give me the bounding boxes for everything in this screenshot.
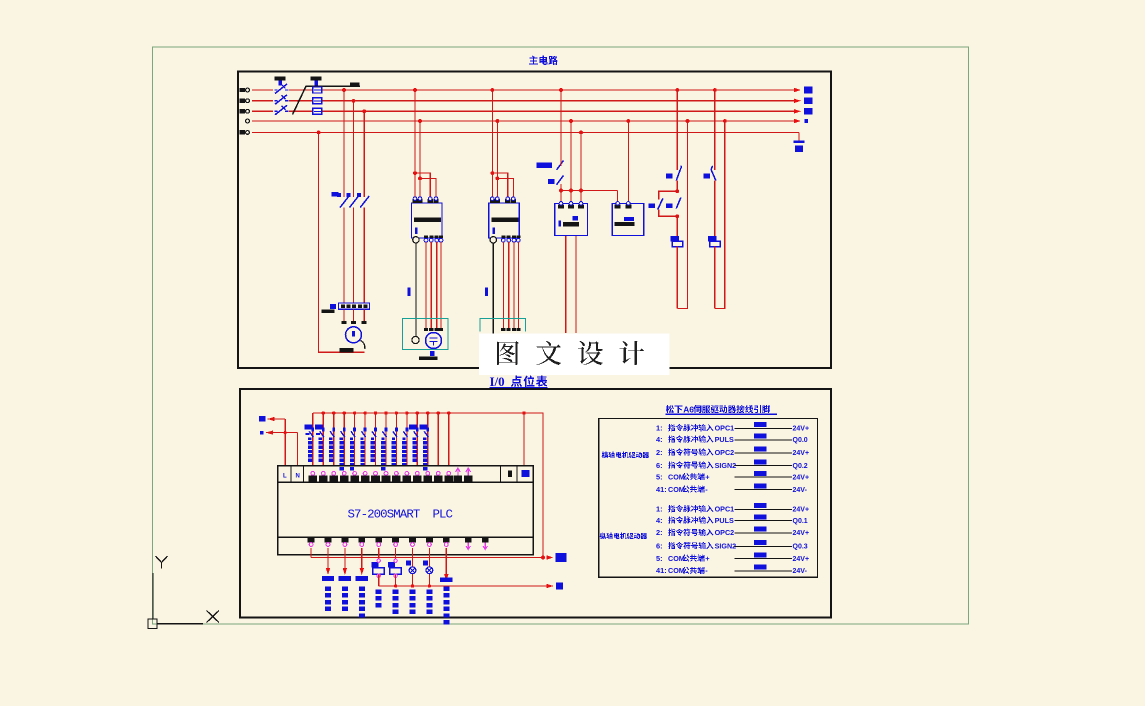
svg-text:L: L (283, 474, 287, 480)
PSU output wires (566, 236, 576, 333)
sensor labels (305, 424, 428, 429)
svg-text:24V+: 24V+ (793, 450, 810, 457)
contactor KM poles column (337, 90, 369, 303)
wires strip to motor1 (342, 309, 367, 324)
svg-text:N: N (296, 474, 300, 480)
svg-text:24V+: 24V+ (793, 556, 810, 563)
PLC bottom terminals (308, 538, 489, 550)
servo pin row A1 (656, 422, 809, 433)
circuit breaker QF poles (273, 84, 289, 115)
drawing frame border (153, 47, 969, 624)
svg-text:24V-: 24V- (793, 487, 808, 494)
PSU box G1 (555, 202, 588, 236)
driver U2 feed wires (490, 90, 513, 199)
driver U2 output wires (485, 242, 518, 338)
label 横轴电机驱动器 (602, 452, 649, 458)
driver U1 feed wires (413, 90, 436, 199)
output column Q0 (322, 548, 334, 611)
svg-text:2:: 2: (656, 448, 663, 457)
motor M1 (340, 327, 365, 353)
servo pin row A2 (656, 433, 808, 444)
title 主电路 (529, 56, 558, 65)
svg-text:6:: 6: (656, 542, 663, 551)
servo pin row B4 (656, 540, 808, 551)
PLC top terminals (309, 468, 473, 481)
svg-text:PULS: PULS (715, 516, 734, 525)
svg-text:+: + (705, 472, 710, 481)
output column relay KA2 (388, 548, 401, 614)
bus line L3 (240, 109, 802, 113)
servo table title (666, 404, 778, 414)
svg-text:24V+: 24V+ (793, 507, 810, 514)
svg-text:4:: 4: (656, 516, 663, 525)
svg-text:OPC1: OPC1 (715, 424, 735, 433)
svg-text:OPC1: OPC1 (715, 505, 735, 514)
svg-text:24V+: 24V+ (793, 530, 810, 537)
watermark text 图文设计 (497, 341, 644, 365)
svg-text:I/0: I/0 (490, 374, 505, 389)
bus line L4 (246, 119, 801, 123)
servo pin row B2 (656, 514, 808, 525)
PLC supply wires (259, 416, 297, 466)
svg-text:Q0.3: Q0.3 (793, 544, 808, 551)
servo pin row A6 (656, 483, 808, 494)
PLC label (348, 508, 453, 522)
servo pin row B6 (656, 565, 808, 576)
output column lamp HL1 (406, 548, 416, 614)
svg-text:PULS: PULS (715, 435, 734, 444)
PE terminal symbol (794, 141, 805, 153)
main circuit box (238, 72, 831, 369)
svg-text:6:: 6: (656, 461, 663, 470)
motor box M3 (teal, partly covered) (480, 319, 526, 332)
label 纵轴电机驱动器 (600, 533, 647, 539)
svg-text:SIGN2: SIGN2 (715, 542, 737, 551)
PLC S7-200 block (278, 466, 534, 555)
control box G2 (612, 202, 643, 236)
svg-text:1:: 1: (656, 505, 663, 514)
servo pin row A5 (656, 471, 809, 482)
svg-text:24V+: 24V+ (793, 426, 810, 433)
driver U2 box (489, 197, 520, 243)
watermark band (479, 334, 670, 376)
UCS axis icon (148, 556, 219, 629)
fuse group FU (313, 87, 322, 114)
control branch K2 (703, 90, 725, 309)
breaker handle T symbol (275, 77, 286, 86)
output column Q1 (339, 548, 351, 611)
output column Q7 (440, 548, 452, 624)
svg-text:5:: 5: (656, 554, 663, 563)
input sensor columns (306, 413, 449, 470)
svg-text:COM: COM (668, 472, 685, 481)
switch SB above PSU (537, 90, 564, 191)
relay common rail (379, 582, 563, 589)
servo table box (599, 419, 818, 578)
terminal strip XT1 (322, 303, 370, 313)
svg-text:S7-200SMART PLC: S7-200SMART PLC (348, 508, 453, 522)
svg-text:41:: 41: (656, 566, 667, 575)
svg-text:5:: 5: (656, 472, 663, 481)
label I/O点位表 (490, 374, 548, 389)
output column relay KA1 (371, 548, 384, 607)
bus line L1 (240, 88, 802, 92)
servo pin row B3 (656, 527, 809, 538)
bus line L2 (240, 99, 802, 103)
svg-text:COM: COM (668, 554, 685, 563)
bus line L5 (240, 130, 800, 141)
driver U1 box (412, 197, 444, 243)
fuse handle T symbol (311, 77, 322, 86)
control branch K1 (648, 90, 687, 309)
output column Q2 (356, 548, 368, 618)
svg-text:24V+: 24V+ (793, 474, 810, 481)
svg-text:COM: COM (668, 485, 685, 494)
svg-text:OPC2: OPC2 (715, 448, 735, 457)
wire L5 to motor1 bottom (319, 132, 365, 352)
servo pin row B5 (656, 552, 809, 563)
PSU feed wires (559, 121, 628, 203)
driver U1 output wires (408, 242, 442, 338)
svg-text:1:: 1: (656, 424, 663, 433)
svg-text:OPC2: OPC2 (715, 528, 735, 537)
svg-text:4:: 4: (656, 435, 663, 444)
bus junction dots (317, 88, 727, 134)
servo pin row A3 (656, 446, 809, 457)
I/O box (240, 389, 831, 618)
svg-text:Q0.0: Q0.0 (793, 437, 808, 444)
breaker linkage (293, 83, 361, 115)
svg-text:+: + (705, 554, 710, 563)
svg-text:24V-: 24V- (793, 568, 808, 575)
output common rail (311, 548, 566, 562)
svg-text:SIGN2: SIGN2 (715, 461, 737, 470)
svg-text:COM: COM (668, 566, 685, 575)
svg-text:Q0.2: Q0.2 (793, 463, 808, 470)
output column lamp HL2 (423, 548, 433, 614)
svg-text:Q0.1: Q0.1 (793, 518, 808, 525)
24V top rail (313, 411, 543, 557)
bus right end terminals (804, 87, 813, 124)
svg-text:2:: 2: (656, 528, 663, 537)
servo pin row A4 (656, 459, 808, 470)
svg-text:41:: 41: (656, 485, 667, 494)
KM label (332, 192, 339, 197)
motor box M2 (teal) (403, 319, 449, 360)
servo pin row B1 (656, 503, 809, 514)
svg-text:A6: A6 (683, 404, 694, 414)
